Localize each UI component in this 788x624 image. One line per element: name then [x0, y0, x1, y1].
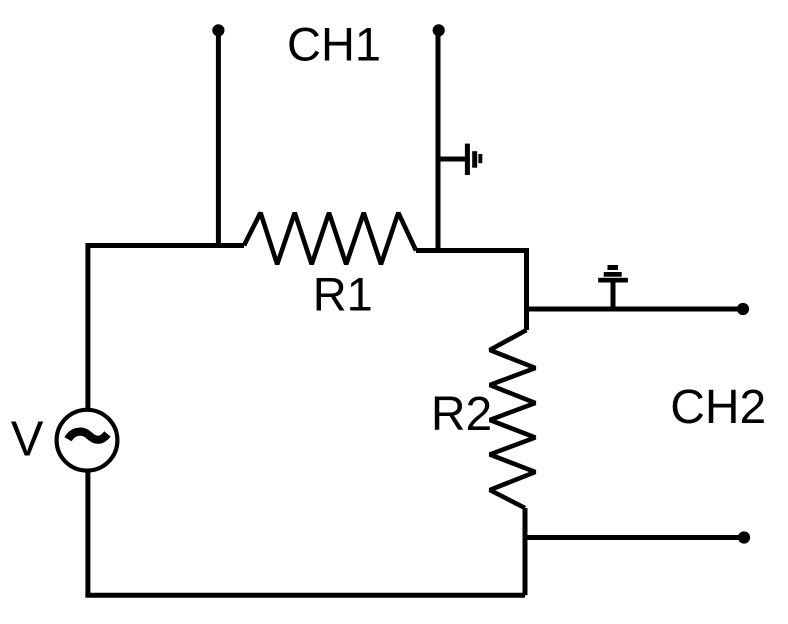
ground: upright bar 2 — [604, 272, 622, 277]
svg-text:CH2: CH2 — [670, 381, 766, 434]
svg-text:CH1: CH1 — [287, 18, 381, 71]
wire: vertical below R2 to bottom rail — [523, 508, 528, 595]
ground: sideways bar 1 — [465, 144, 470, 175]
node dot: CH1 left terminal — [212, 24, 224, 36]
wire: mid horizontal from R1 to right corner, down to R2 — [416, 251, 527, 331]
ground: upright bar 3 — [608, 265, 619, 270]
wire: CH1 right probe lead — [436, 30, 441, 250]
svg-text:R1: R1 — [313, 268, 373, 321]
AC source sine (tilde) symbol — [68, 432, 108, 440]
wire: CH2 bottom lead — [525, 535, 744, 540]
svg-text:R2: R2 — [431, 388, 492, 441]
ground: CH2 probe ground stub (upright) — [611, 281, 616, 309]
AC source V1 circle — [57, 410, 118, 471]
ground: upright bar 1 — [598, 278, 628, 283]
node dot: CH2 top terminal — [737, 303, 749, 315]
node dot: CH2 bottom terminal — [738, 531, 750, 543]
wire: bottom rail — [85, 593, 525, 598]
wire: CH1 left probe lead — [216, 30, 221, 248]
wire: top-left vertical and top-left horizontal rail — [88, 246, 244, 409]
ground: sideways bar 2 — [472, 151, 477, 168]
ground: CH1 probe ground stub (sideways) — [439, 157, 467, 162]
ground: sideways bar 3 — [478, 154, 482, 163]
node dot: CH1 right terminal — [433, 24, 445, 36]
svg-text:V: V — [11, 413, 44, 467]
resistor R1 — [244, 213, 416, 265]
resistor R2 — [490, 330, 536, 508]
wire: CH2 top lead — [527, 307, 744, 312]
wire: bottom-left vertical (source to bottom rail) — [85, 472, 90, 596]
